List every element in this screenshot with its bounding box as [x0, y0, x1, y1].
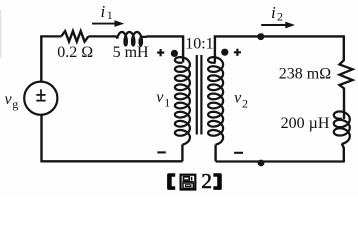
label 0.2 ohm [57, 44, 93, 61]
polarity dot secondary [221, 49, 228, 56]
resistor R2 238 mohm [339, 60, 352, 89]
plus sign secondary [234, 49, 241, 56]
svg-text:1: 1 [107, 10, 113, 22]
svg-text:2: 2 [242, 97, 248, 111]
edge artifact line [0, 10, 2, 58]
svg-text:v: v [156, 89, 164, 106]
wire left vertical top [40, 35, 42, 81]
svg-text:5 mH: 5 mH [113, 44, 149, 61]
wire bottom-right horizontal [216, 160, 344, 162]
junction dot bottom [258, 160, 265, 167]
wire between resistor and inductor [88, 35, 116, 37]
svg-text:238 mΩ: 238 mΩ [279, 66, 331, 83]
svg-text:2: 2 [201, 169, 212, 193]
junction dot top [257, 33, 264, 40]
wire left vertical bottom [40, 115, 42, 162]
wire right vertical bottom [342, 144, 344, 163]
arrow i1 [92, 20, 124, 27]
wire inductor to transformer corner [146, 36, 183, 62]
wire bottom-left horizontal [42, 160, 183, 162]
inductor L1 5 mH [116, 32, 147, 45]
svg-text:10:1: 10:1 [185, 35, 213, 52]
voltage source vg circle [24, 82, 57, 115]
svg-text:1: 1 [164, 95, 170, 109]
svg-text:i: i [101, 2, 106, 21]
label 200 uH [281, 115, 330, 132]
svg-text:g: g [12, 97, 18, 111]
caption character tu (figure) [181, 175, 196, 190]
wire between R2 and L2 [343, 89, 345, 120]
wire right vertical top [343, 35, 345, 60]
polarity dot primary [171, 50, 178, 57]
minus sign secondary [234, 152, 243, 154]
wire primary winding bottom lead [181, 145, 183, 162]
label i2 [271, 3, 283, 24]
label v1 [156, 89, 170, 109]
plus-minus symbol [36, 89, 45, 100]
wire secondary winding top lead [215, 36, 344, 62]
transformer secondary winding [208, 57, 223, 144]
svg-text:2: 2 [277, 10, 283, 24]
resistor R1 0.2 ohm [61, 31, 88, 41]
inductor L2 200 uH [334, 111, 350, 143]
wire secondary winding bottom lead [214, 145, 216, 162]
svg-text:0.2 Ω: 0.2 Ω [57, 44, 93, 61]
caption left bracket [167, 173, 175, 190]
arrow i2 [261, 22, 295, 29]
svg-text:i: i [271, 3, 276, 22]
transformer core [197, 55, 202, 135]
svg-text:200 µH: 200 µH [281, 115, 330, 132]
svg-text:v: v [234, 90, 242, 107]
transformer primary winding [175, 57, 190, 144]
label vg [5, 91, 19, 111]
caption number 2 [201, 169, 212, 193]
label 5 mH [113, 44, 149, 61]
plus sign primary [157, 49, 164, 56]
label i1 [101, 2, 113, 22]
wire top-left horizontal [41, 35, 61, 37]
label 10:1 [185, 35, 213, 52]
label 238 mohm [279, 66, 331, 83]
caption right bracket [213, 173, 221, 190]
label v2 [234, 90, 248, 111]
minus sign primary [157, 151, 166, 153]
